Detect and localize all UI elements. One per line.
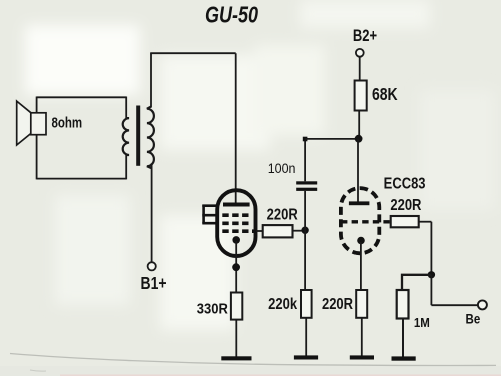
ground (1M) <box>392 356 416 360</box>
wire speaker loop top <box>37 96 127 98</box>
tube GU-50 grid row 3 <box>222 229 256 233</box>
svg-text:1M: 1M <box>414 315 430 330</box>
tube GU-50 grid row 2 <box>222 221 249 225</box>
wire 220k to ground <box>305 318 307 356</box>
svg-text:68K: 68K <box>372 86 398 105</box>
resistor 220k <box>301 290 312 318</box>
svg-text:GU-50: GU-50 <box>205 2 258 28</box>
terminal Be <box>478 300 487 309</box>
svg-text:ECC83: ECC83 <box>384 175 426 192</box>
label 220R output <box>390 197 422 214</box>
capacitor 100n plate top <box>296 181 317 184</box>
resistor 220R output <box>391 216 419 227</box>
transformer T1 core <box>136 106 140 166</box>
wire top rail <box>150 52 236 54</box>
resistor 220R grid stopper <box>263 225 293 237</box>
junction grid node <box>301 227 308 234</box>
ground (330R) <box>221 356 251 360</box>
label B2+ <box>353 28 377 46</box>
wire 220R cathode to ground <box>361 318 363 356</box>
tube ECC83 cathode dot <box>357 237 365 245</box>
wire to Be terminal <box>431 304 477 306</box>
label ECC83 <box>384 175 426 192</box>
resistor 68K <box>355 81 367 111</box>
label 1M <box>414 315 430 330</box>
svg-text:Be: Be <box>466 312 481 327</box>
svg-text:220R: 220R <box>267 207 299 224</box>
wire down to output node <box>430 222 432 275</box>
tube GU-50 envelope <box>217 190 255 256</box>
resistor 1M <box>397 290 409 319</box>
tube ECC83 envelope (dashed) <box>341 188 379 253</box>
terminal B1+ <box>148 262 156 270</box>
wire GU-50 grid to 220R <box>256 230 263 232</box>
bottom scan artifact line <box>10 354 496 366</box>
transformer T1 secondary winding <box>123 118 129 155</box>
label 220R cathode <box>322 296 354 313</box>
resistor 330R <box>231 293 242 320</box>
wire cap top up to corner <box>304 139 306 181</box>
wire primary top to top rail <box>150 53 152 107</box>
wire ECC83 cathode down <box>360 242 362 290</box>
tube GU-50 cathode dot <box>232 236 240 244</box>
transformer T1 primary winding <box>147 107 154 169</box>
ground (220k) <box>294 355 318 359</box>
wire 220R to grid node <box>293 230 306 232</box>
wire top rail drop to GU-50 anode <box>235 53 237 203</box>
label 220R grid stopper <box>267 207 299 224</box>
wire output node down <box>430 275 432 305</box>
label B1+ <box>140 275 166 294</box>
wire cap bottom down to grid node and 220k <box>304 191 306 290</box>
wire secondary top connector <box>125 97 127 119</box>
wire speaker loop left <box>36 97 38 180</box>
svg-text:220R: 220R <box>390 197 422 214</box>
svg-text:8ohm: 8ohm <box>52 114 83 131</box>
label Be <box>466 312 481 327</box>
label 330R <box>197 300 228 317</box>
wire 220R output right <box>419 221 432 223</box>
svg-text:220R: 220R <box>322 296 354 313</box>
capacitor 100n plate bottom <box>296 188 317 191</box>
wire 330R to ground <box>235 320 237 357</box>
tube ECC83 anode bar <box>349 201 370 205</box>
ground (220R cathode) <box>350 355 374 359</box>
junction anode node <box>355 135 363 143</box>
svg-text:100n: 100n <box>268 160 296 176</box>
label 68K <box>372 86 398 105</box>
svg-text:B1+: B1+ <box>140 275 166 294</box>
svg-text:B2+: B2+ <box>353 28 377 46</box>
wire output node to 1M <box>402 275 431 290</box>
label 220k <box>268 296 297 313</box>
wire GU-50 cathode down <box>235 241 237 293</box>
wire secondary bottom connector <box>125 155 127 180</box>
wire anode node down to ECC83 anode <box>357 139 359 203</box>
svg-text:220k: 220k <box>268 296 297 313</box>
tube GU-50 grid row 1 <box>222 213 249 217</box>
svg-text:330R: 330R <box>197 300 228 317</box>
wire corner to B2+ rail <box>305 138 359 140</box>
label GU-50 title <box>205 2 258 28</box>
junction corner square <box>303 137 308 142</box>
resistor 220R cathode <box>356 290 367 318</box>
label 100n <box>268 160 296 176</box>
speaker 8ohm <box>17 101 46 145</box>
terminal B2+ <box>356 49 364 57</box>
wire B2+ to 68K <box>359 57 361 81</box>
junction output node <box>428 271 435 278</box>
tube GU-50 side-pin bracket <box>202 205 219 224</box>
wire 1M to ground <box>402 319 404 357</box>
tube GU-50 anode bar <box>223 203 250 207</box>
label 8ohm <box>52 114 83 131</box>
wire 68K down to anode node <box>358 111 360 139</box>
tube ECC83 grid (dashed) <box>341 220 390 223</box>
wire speaker loop bottom <box>37 178 127 180</box>
junction cathode node <box>232 263 240 271</box>
wire primary bottom to B1+ <box>151 163 153 262</box>
